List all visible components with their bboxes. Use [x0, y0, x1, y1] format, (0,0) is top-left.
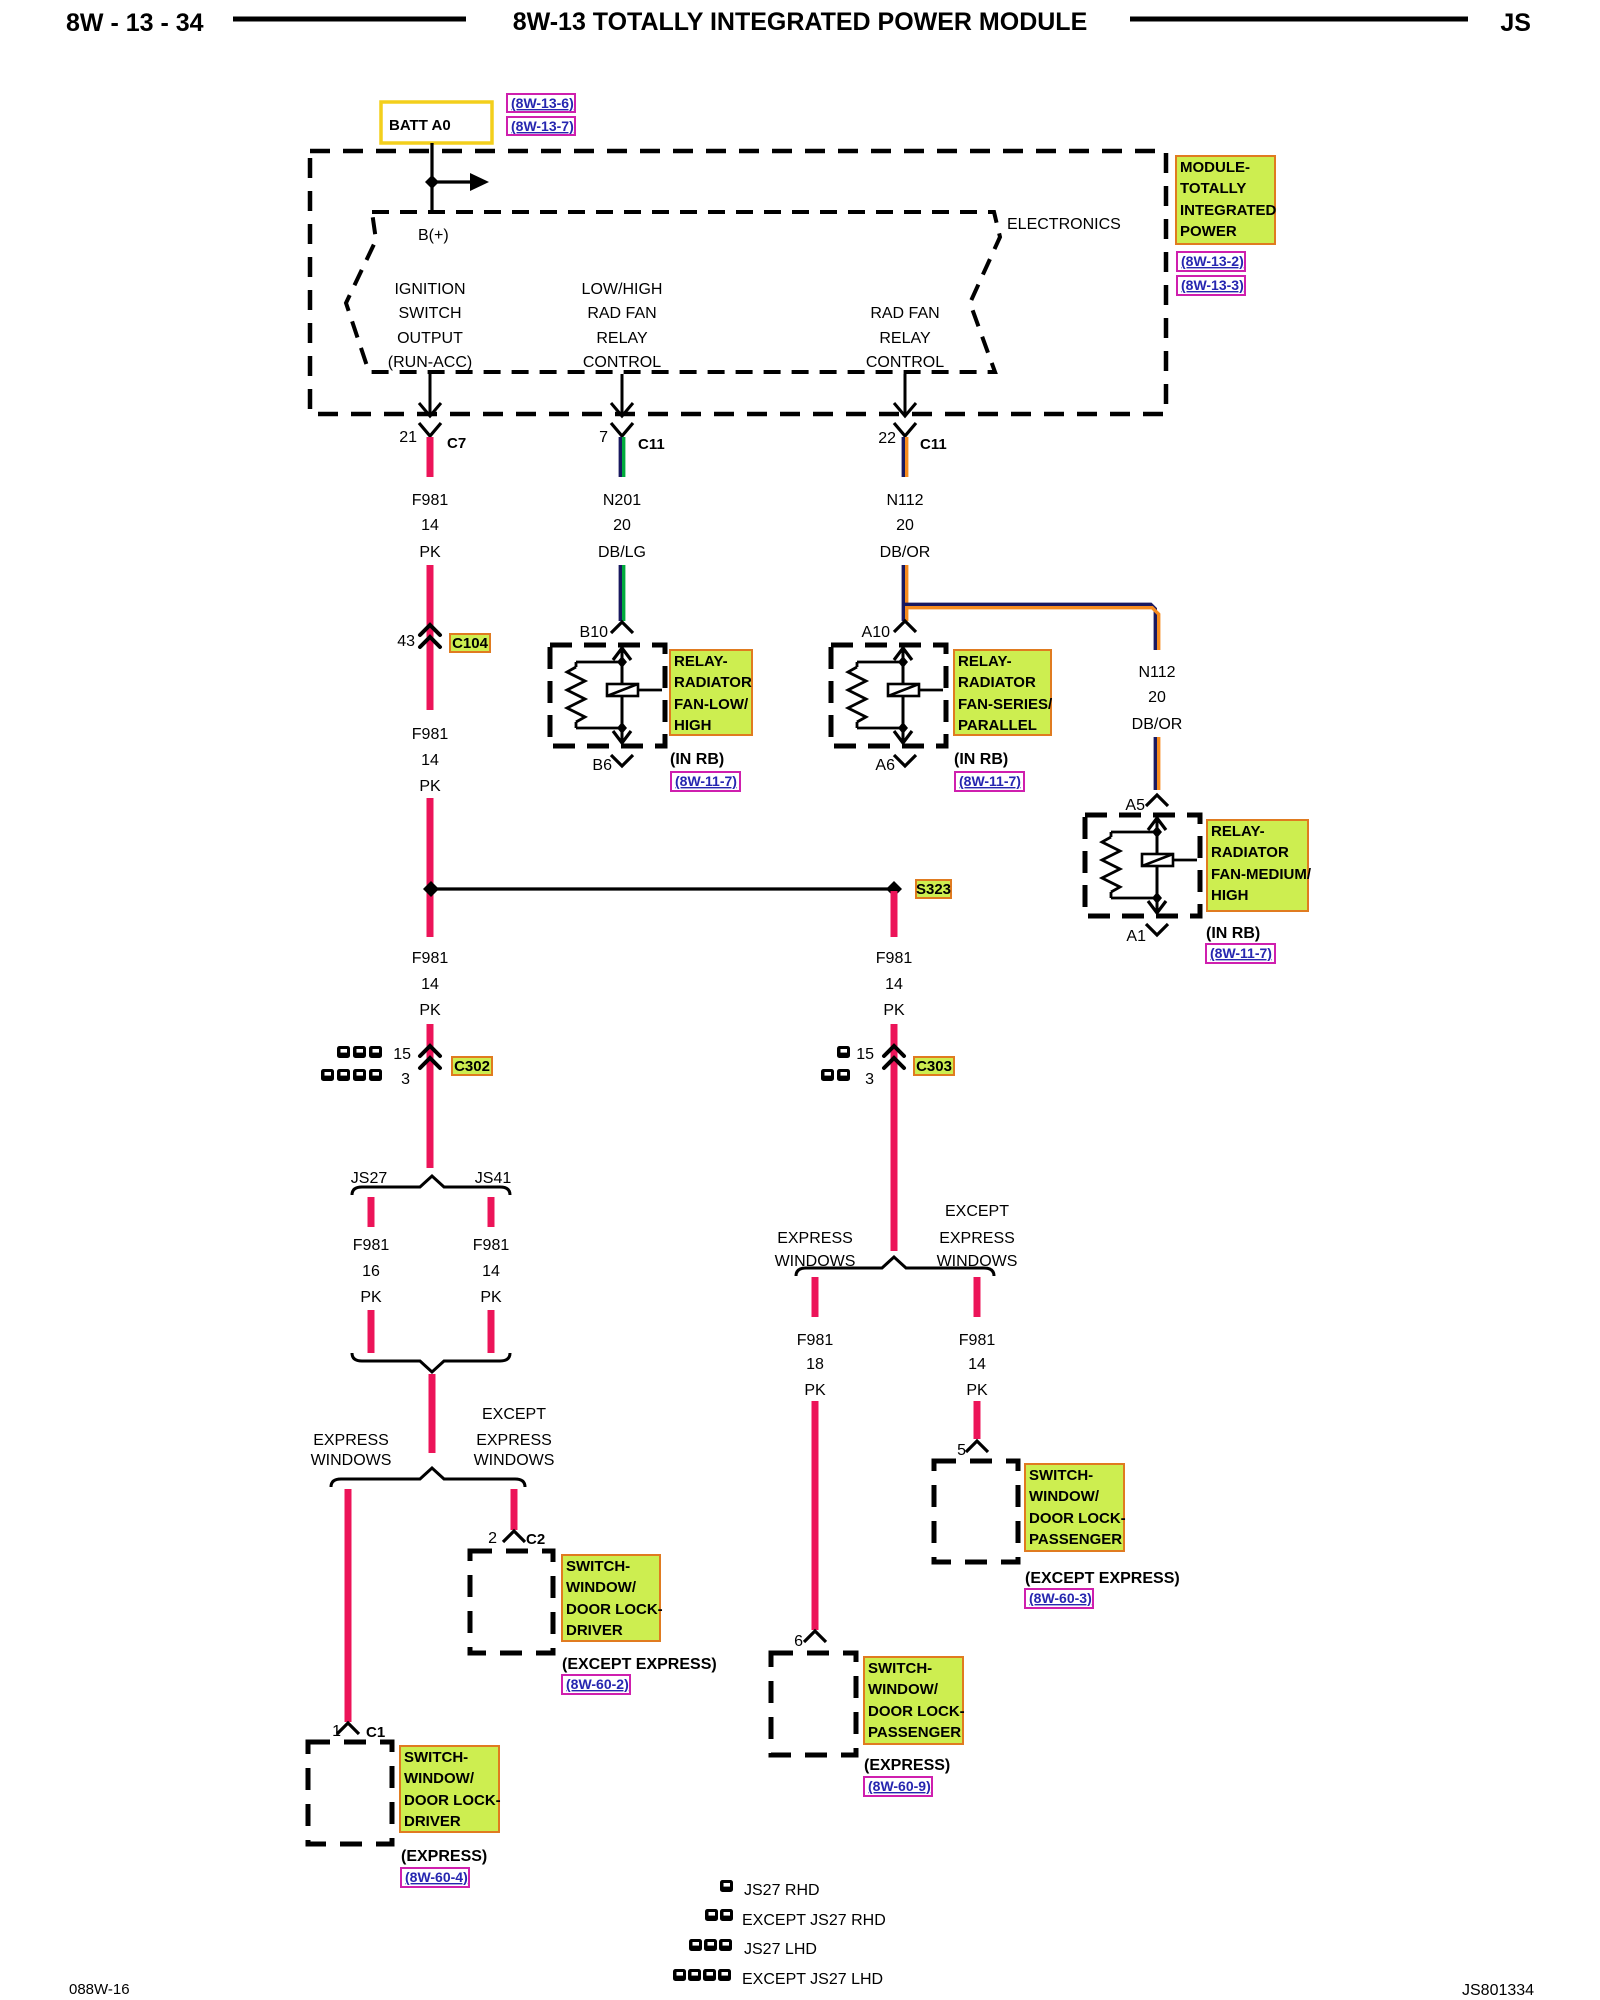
svg-text:C104: C104	[452, 635, 489, 652]
svg-text:ELECTRONICS: ELECTRONICS	[1007, 216, 1121, 233]
svg-text:EXCEPT: EXCEPT	[945, 1203, 1009, 1220]
svg-text:MODULE-: MODULE-	[1180, 159, 1250, 176]
svg-text:16: 16	[362, 1263, 380, 1280]
svg-text:22: 22	[878, 430, 896, 447]
svg-text:FAN-SERIES/: FAN-SERIES/	[958, 696, 1053, 713]
svg-text:43: 43	[397, 633, 415, 650]
svg-text:14: 14	[421, 752, 439, 769]
svg-text:RAD FAN: RAD FAN	[587, 305, 656, 322]
svg-text:FAN-MEDIUM/: FAN-MEDIUM/	[1211, 866, 1312, 883]
svg-text:JS27: JS27	[351, 1170, 388, 1187]
svg-text:A6: A6	[875, 757, 895, 774]
svg-text:BATT A0: BATT A0	[389, 117, 451, 134]
svg-text:DOOR LOCK-: DOOR LOCK-	[404, 1792, 501, 1809]
svg-text:C7: C7	[447, 435, 466, 452]
svg-text:IGNITION: IGNITION	[394, 281, 465, 298]
svg-text:WINDOW/: WINDOW/	[868, 1681, 939, 1698]
svg-text:EXPRESS: EXPRESS	[777, 1230, 853, 1247]
svg-text:(8W-11-7): (8W-11-7)	[959, 773, 1021, 789]
svg-text:PK: PK	[419, 778, 441, 795]
svg-text:S323: S323	[916, 881, 951, 898]
svg-text:WINDOW/: WINDOW/	[566, 1579, 637, 1596]
svg-text:3: 3	[401, 1071, 410, 1088]
svg-text:C2: C2	[526, 1531, 545, 1548]
svg-text:FAN-LOW/: FAN-LOW/	[674, 696, 749, 713]
svg-text:F981: F981	[797, 1332, 834, 1349]
svg-text:JS41: JS41	[475, 1170, 512, 1187]
svg-text:3: 3	[865, 1071, 874, 1088]
svg-text:WINDOW/: WINDOW/	[404, 1770, 475, 1787]
svg-text:(IN RB): (IN RB)	[954, 751, 1008, 768]
svg-text:F981: F981	[959, 1332, 996, 1349]
svg-text:PK: PK	[360, 1289, 382, 1306]
svg-text:(EXCEPT EXPRESS): (EXCEPT EXPRESS)	[1025, 1570, 1180, 1587]
svg-text:F981: F981	[876, 950, 913, 967]
svg-text:JS27 RHD: JS27 RHD	[744, 1882, 820, 1899]
svg-text:14: 14	[421, 976, 439, 993]
svg-text:EXCEPT: EXCEPT	[482, 1406, 546, 1423]
svg-text:6: 6	[794, 1633, 803, 1650]
svg-text:5: 5	[957, 1442, 966, 1459]
svg-text:PASSENGER: PASSENGER	[868, 1724, 961, 1741]
svg-text:PARALLEL: PARALLEL	[958, 717, 1037, 734]
svg-text:RAD FAN: RAD FAN	[870, 305, 939, 322]
svg-text:(8W-11-7): (8W-11-7)	[675, 773, 737, 789]
svg-text:(8W-60-3): (8W-60-3)	[1029, 1590, 1092, 1606]
svg-text:F981: F981	[412, 492, 449, 509]
svg-text:EXCEPT JS27 LHD: EXCEPT JS27 LHD	[742, 1971, 883, 1988]
svg-text:TOTALLY: TOTALLY	[1180, 180, 1246, 197]
svg-text:EXCEPT JS27 RHD: EXCEPT JS27 RHD	[742, 1912, 886, 1929]
svg-text:C11: C11	[638, 436, 665, 453]
svg-text:PK: PK	[480, 1289, 502, 1306]
svg-text:RADIATOR: RADIATOR	[674, 674, 752, 691]
svg-text:14: 14	[482, 1263, 500, 1280]
svg-text:B(+): B(+)	[418, 227, 449, 244]
svg-text:20: 20	[896, 517, 914, 534]
svg-text:JS27 LHD: JS27 LHD	[744, 1941, 817, 1958]
svg-text:PK: PK	[804, 1382, 826, 1399]
svg-text:DOOR LOCK-: DOOR LOCK-	[868, 1703, 965, 1720]
svg-text:(8W-13-7): (8W-13-7)	[511, 118, 574, 134]
svg-text:(EXPRESS): (EXPRESS)	[864, 1757, 950, 1774]
svg-text:(EXPRESS): (EXPRESS)	[401, 1848, 487, 1865]
svg-text:DB/LG: DB/LG	[598, 544, 646, 561]
svg-text:LOW/HIGH: LOW/HIGH	[582, 281, 663, 298]
svg-text:WINDOW/: WINDOW/	[1029, 1488, 1100, 1505]
svg-text:(8W-60-4): (8W-60-4)	[405, 1869, 468, 1885]
svg-text:(8W-60-9): (8W-60-9)	[868, 1778, 931, 1794]
svg-text:DRIVER: DRIVER	[404, 1813, 461, 1830]
svg-text:14: 14	[885, 976, 903, 993]
svg-text:15: 15	[856, 1046, 874, 1063]
svg-text:2: 2	[488, 1530, 497, 1547]
svg-text:OUTPUT: OUTPUT	[397, 330, 463, 347]
svg-text:(8W-13-2): (8W-13-2)	[1181, 253, 1244, 269]
svg-text:WINDOWS: WINDOWS	[474, 1452, 555, 1469]
svg-text:CONTROL: CONTROL	[583, 354, 661, 371]
svg-text:SWITCH-: SWITCH-	[566, 1558, 630, 1575]
svg-text:SWITCH-: SWITCH-	[868, 1660, 932, 1677]
svg-text:RELAY-: RELAY-	[674, 653, 728, 670]
svg-text:SWITCH: SWITCH	[398, 305, 461, 322]
svg-text:N112: N112	[1138, 664, 1175, 681]
svg-text:088W-16: 088W-16	[69, 1981, 130, 1998]
svg-text:7: 7	[599, 429, 608, 446]
svg-text:EXPRESS: EXPRESS	[313, 1432, 389, 1449]
svg-text:POWER: POWER	[1180, 223, 1237, 240]
svg-text:(RUN-ACC): (RUN-ACC)	[388, 354, 472, 371]
svg-text:PK: PK	[419, 544, 441, 561]
svg-text:RELAY: RELAY	[879, 330, 931, 347]
svg-text:SWITCH-: SWITCH-	[404, 1749, 468, 1766]
svg-text:14: 14	[421, 517, 439, 534]
svg-text:(8W-11-7): (8W-11-7)	[1210, 945, 1272, 961]
svg-text:DB/OR: DB/OR	[880, 544, 931, 561]
svg-text:HIGH: HIGH	[1211, 887, 1249, 904]
svg-text:RADIATOR: RADIATOR	[1211, 844, 1289, 861]
svg-text:20: 20	[1148, 689, 1166, 706]
svg-text:DOOR LOCK-: DOOR LOCK-	[1029, 1510, 1126, 1527]
svg-text:HIGH: HIGH	[674, 717, 712, 734]
svg-text:N201: N201	[603, 492, 641, 509]
svg-text:RADIATOR: RADIATOR	[958, 674, 1036, 691]
svg-text:F981: F981	[473, 1237, 510, 1254]
svg-text:JS: JS	[1500, 9, 1531, 37]
svg-text:A1: A1	[1126, 928, 1146, 945]
svg-text:(8W-60-2): (8W-60-2)	[566, 1676, 629, 1692]
svg-text:F981: F981	[412, 726, 449, 743]
svg-text:C303: C303	[916, 1058, 952, 1075]
svg-text:SWITCH-: SWITCH-	[1029, 1467, 1093, 1484]
svg-text:RELAY: RELAY	[596, 330, 648, 347]
svg-text:F981: F981	[353, 1237, 390, 1254]
svg-text:B10: B10	[580, 624, 609, 641]
svg-text:(IN RB): (IN RB)	[670, 751, 724, 768]
svg-text:CONTROL: CONTROL	[866, 354, 944, 371]
svg-text:DOOR LOCK-: DOOR LOCK-	[566, 1601, 663, 1618]
svg-text:INTEGRATED: INTEGRATED	[1180, 202, 1277, 219]
svg-text:WINDOWS: WINDOWS	[311, 1452, 392, 1469]
svg-text:21: 21	[399, 429, 417, 446]
svg-text:C1: C1	[366, 1724, 385, 1741]
svg-text:(IN RB): (IN RB)	[1206, 925, 1260, 942]
svg-text:PK: PK	[419, 1002, 441, 1019]
svg-text:(8W-13-6): (8W-13-6)	[511, 95, 574, 111]
svg-text:18: 18	[806, 1356, 824, 1373]
svg-text:A5: A5	[1125, 797, 1145, 814]
svg-text:PK: PK	[966, 1382, 988, 1399]
svg-text:DRIVER: DRIVER	[566, 1622, 623, 1639]
svg-text:8W-13 TOTALLY INTEGRATED POWER: 8W-13 TOTALLY INTEGRATED POWER MODULE	[513, 8, 1088, 36]
svg-text:DB/OR: DB/OR	[1132, 716, 1183, 733]
svg-text:PK: PK	[883, 1002, 905, 1019]
svg-text:(8W-13-3): (8W-13-3)	[1181, 277, 1244, 293]
svg-text:PASSENGER: PASSENGER	[1029, 1531, 1122, 1548]
svg-text:15: 15	[393, 1046, 411, 1063]
svg-text:JS801334: JS801334	[1462, 1982, 1534, 1999]
svg-text:F981: F981	[412, 950, 449, 967]
svg-text:EXPRESS: EXPRESS	[476, 1432, 552, 1449]
svg-text:N112: N112	[886, 492, 923, 509]
svg-text:RELAY-: RELAY-	[958, 653, 1012, 670]
svg-text:14: 14	[968, 1356, 986, 1373]
svg-text:B6: B6	[592, 757, 612, 774]
svg-text:EXPRESS: EXPRESS	[939, 1230, 1015, 1247]
svg-text:C302: C302	[454, 1058, 490, 1075]
svg-text:20: 20	[613, 517, 631, 534]
svg-text:C11: C11	[920, 436, 947, 453]
svg-text:8W - 13 - 34: 8W - 13 - 34	[66, 9, 204, 37]
svg-text:A10: A10	[862, 624, 891, 641]
svg-text:(EXCEPT EXPRESS): (EXCEPT EXPRESS)	[562, 1656, 717, 1673]
svg-text:RELAY-: RELAY-	[1211, 823, 1265, 840]
